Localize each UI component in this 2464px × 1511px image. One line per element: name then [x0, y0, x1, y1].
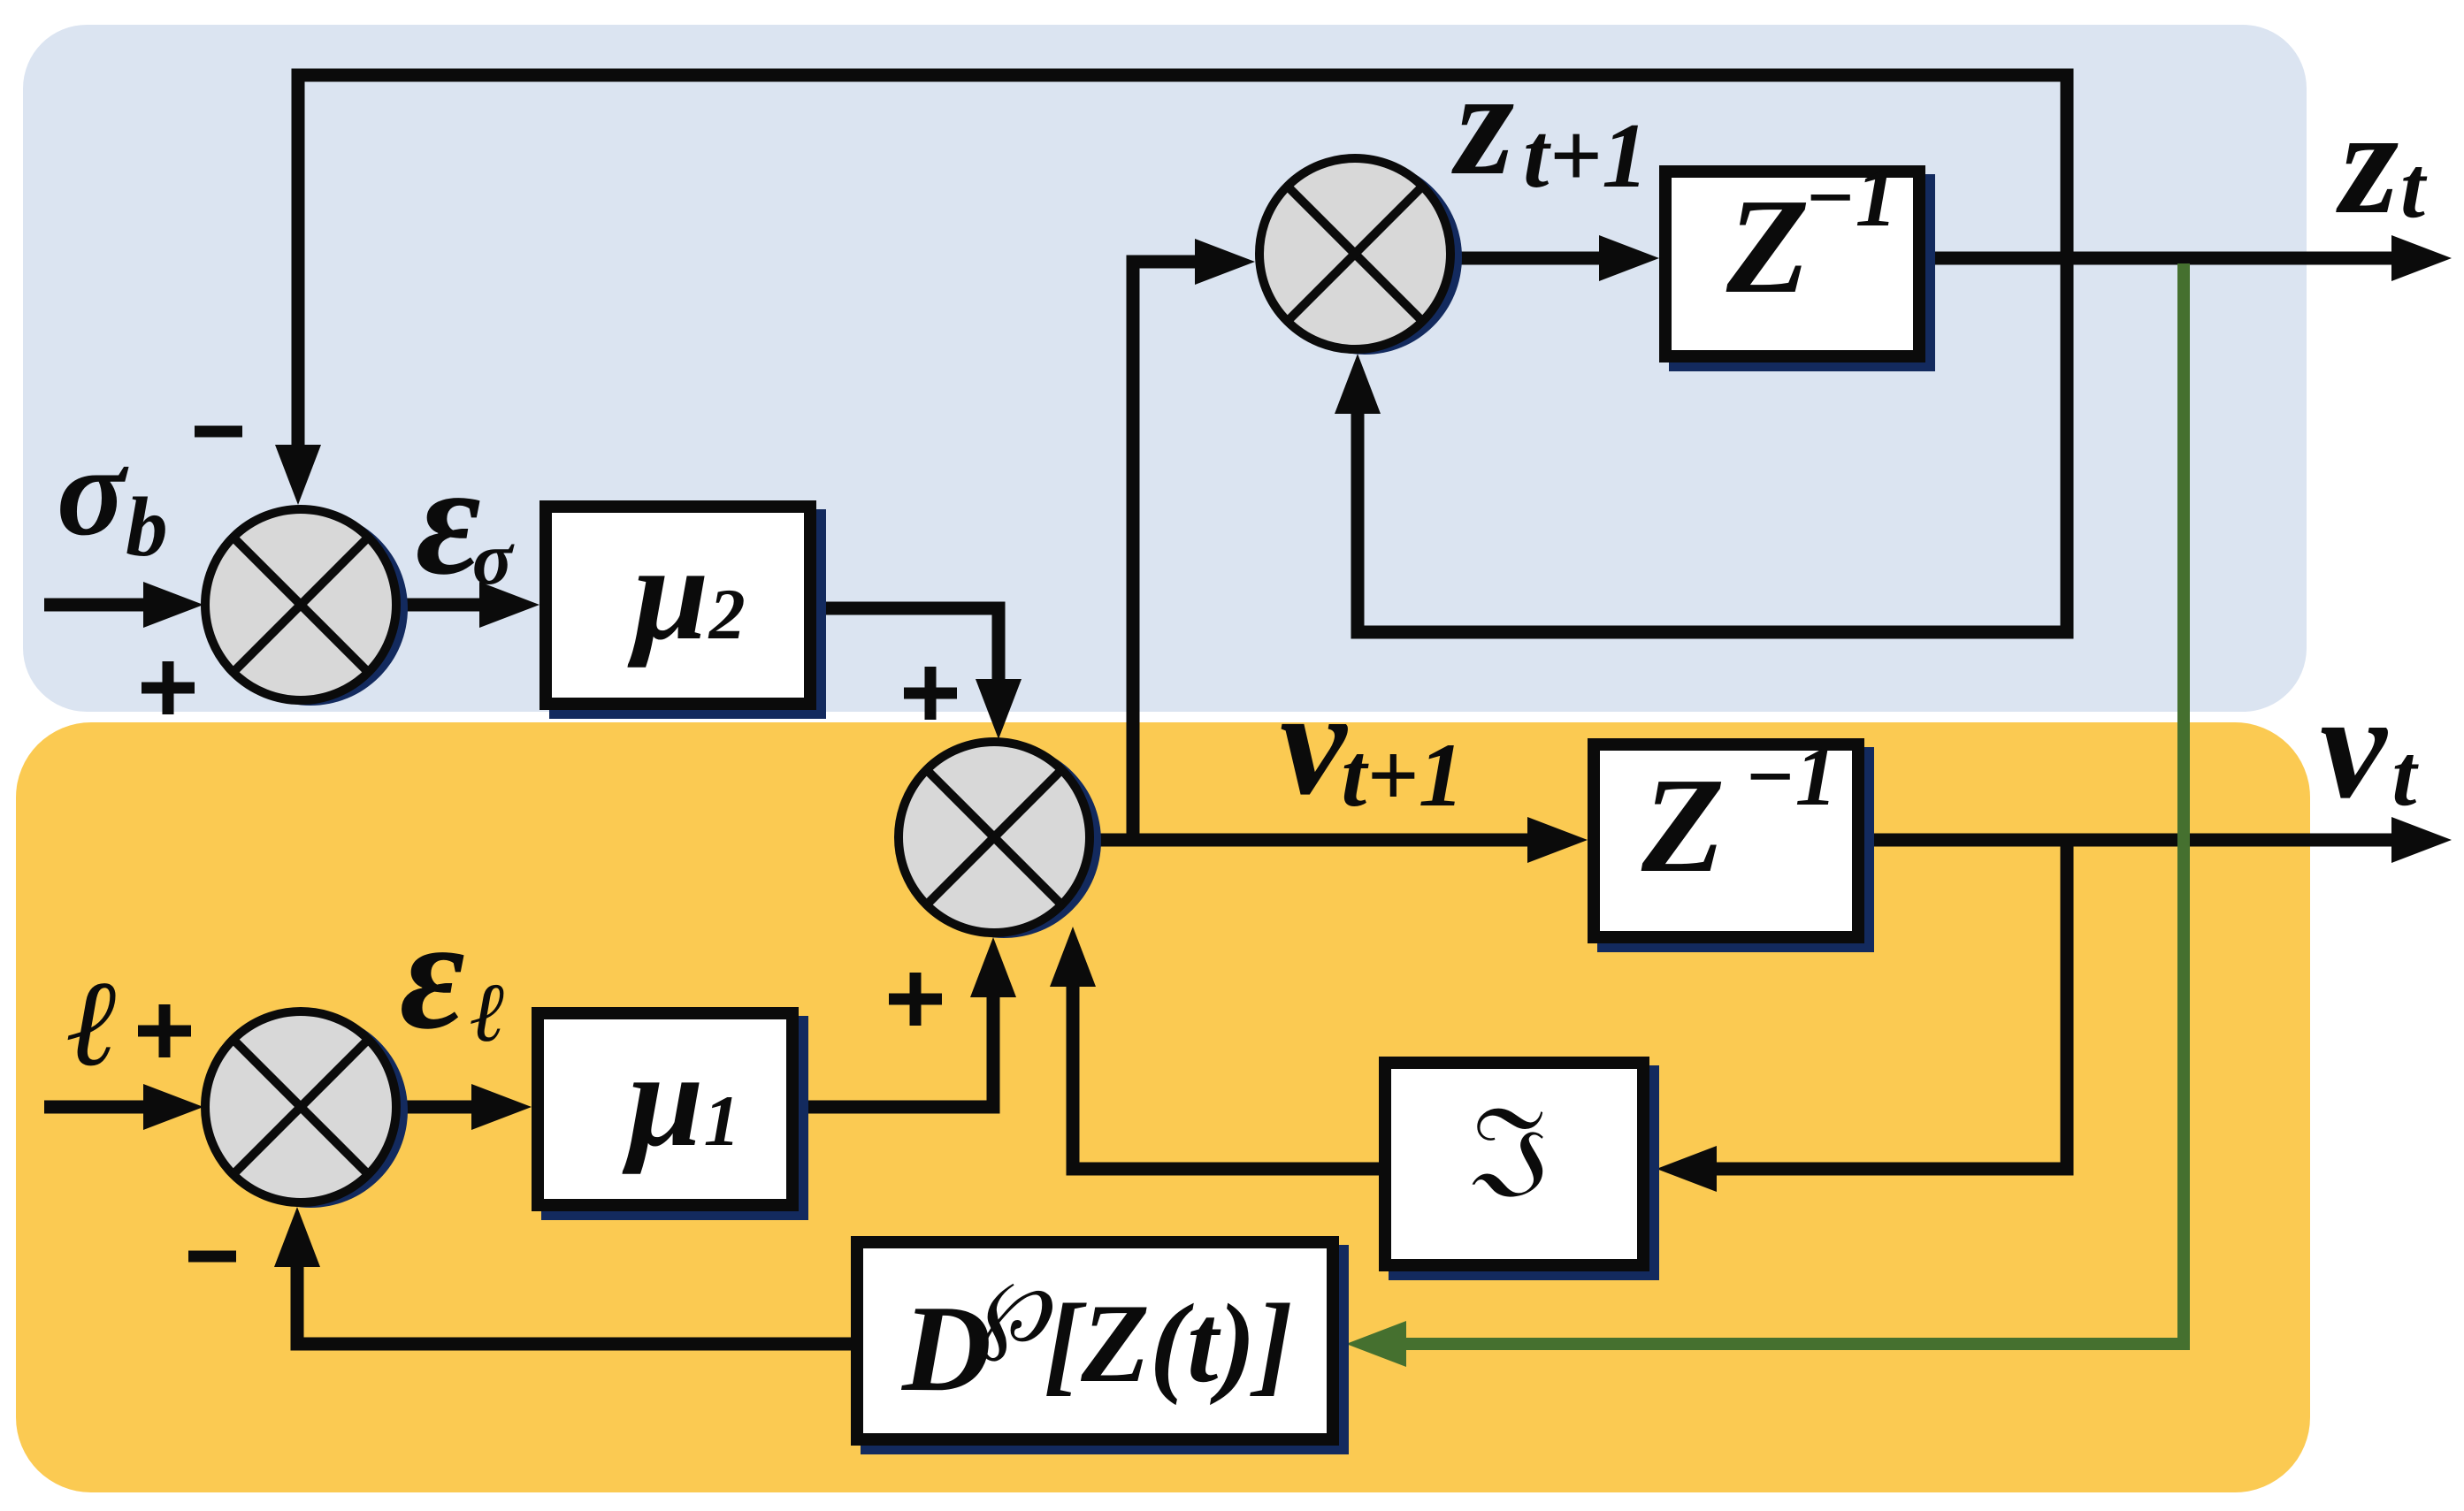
svg-text:ℓ: ℓ [67, 956, 119, 1091]
wire: l input into lower summing node [44, 1101, 146, 1114]
wire: middle z^-1 to v_t output [1864, 834, 2393, 847]
wire: top multiplier to top z^-1 block [1454, 252, 1601, 265]
label plus at M2 top [904, 688, 957, 699]
label minus at S1 [195, 426, 242, 438]
multiplier node M1 (z update) [1259, 158, 1462, 355]
fractional derivative block D^p[Z(t)] [857, 1242, 1349, 1454]
summing node S2 (l loop) [205, 1011, 408, 1208]
wire: top z^-1 to z_t output [1925, 252, 2393, 265]
wire: middle multiplier to middle z^-1 block (v_t+1) [1093, 834, 1529, 847]
wire: lower summing node to mu1 block [400, 1101, 473, 1114]
label plus at S1 [142, 683, 195, 694]
yellow lower panel (v-update region) [16, 722, 2310, 1492]
wire: D block output back into lower summing node [297, 1265, 851, 1344]
wire: sigma_b input into left summing node [44, 599, 146, 612]
wire: v feedback down into Fraktur-J block [1715, 840, 2067, 1169]
wire: Fraktur-J output up into middle multiplier [1073, 985, 1379, 1169]
svg-text:[Z(t)]: [Z(t)] [1044, 1282, 1293, 1406]
wire: mu1 output up into middle multiplier [799, 996, 993, 1107]
svg-text:zt: zt [2336, 79, 2428, 245]
wire: left summing node to mu2 block [400, 599, 480, 612]
label minus at S2 [188, 1251, 236, 1263]
delay block z^-1 (z path) [1665, 150, 1935, 371]
wire: z feedback loop (top line, right drop, bottom return into top multiplier) [298, 75, 2067, 632]
summing node S1 (sigma loop) [205, 509, 408, 706]
wire: v_t+1 branch up into top multiplier [1133, 262, 1196, 840]
gain block mu1 [538, 1013, 808, 1220]
label plus at M2 bottom [889, 994, 942, 1005]
svg-text:D: D [900, 1280, 991, 1417]
wire: green z_t tap down into D block [1406, 263, 2184, 1344]
blue upper panel (z-update region) [23, 25, 2307, 712]
multiplier node M2 (v update) [899, 742, 1101, 938]
svg-text:vt: vt [2320, 663, 2419, 829]
delay block z^-1 (v path) [1594, 729, 1874, 952]
Fraktur-J block (fitness operator) [1385, 1063, 1659, 1280]
gain block mu2 [546, 507, 826, 719]
wire: mu2 output down into middle multiplier [816, 608, 999, 681]
label plus at S2 [138, 1026, 191, 1037]
